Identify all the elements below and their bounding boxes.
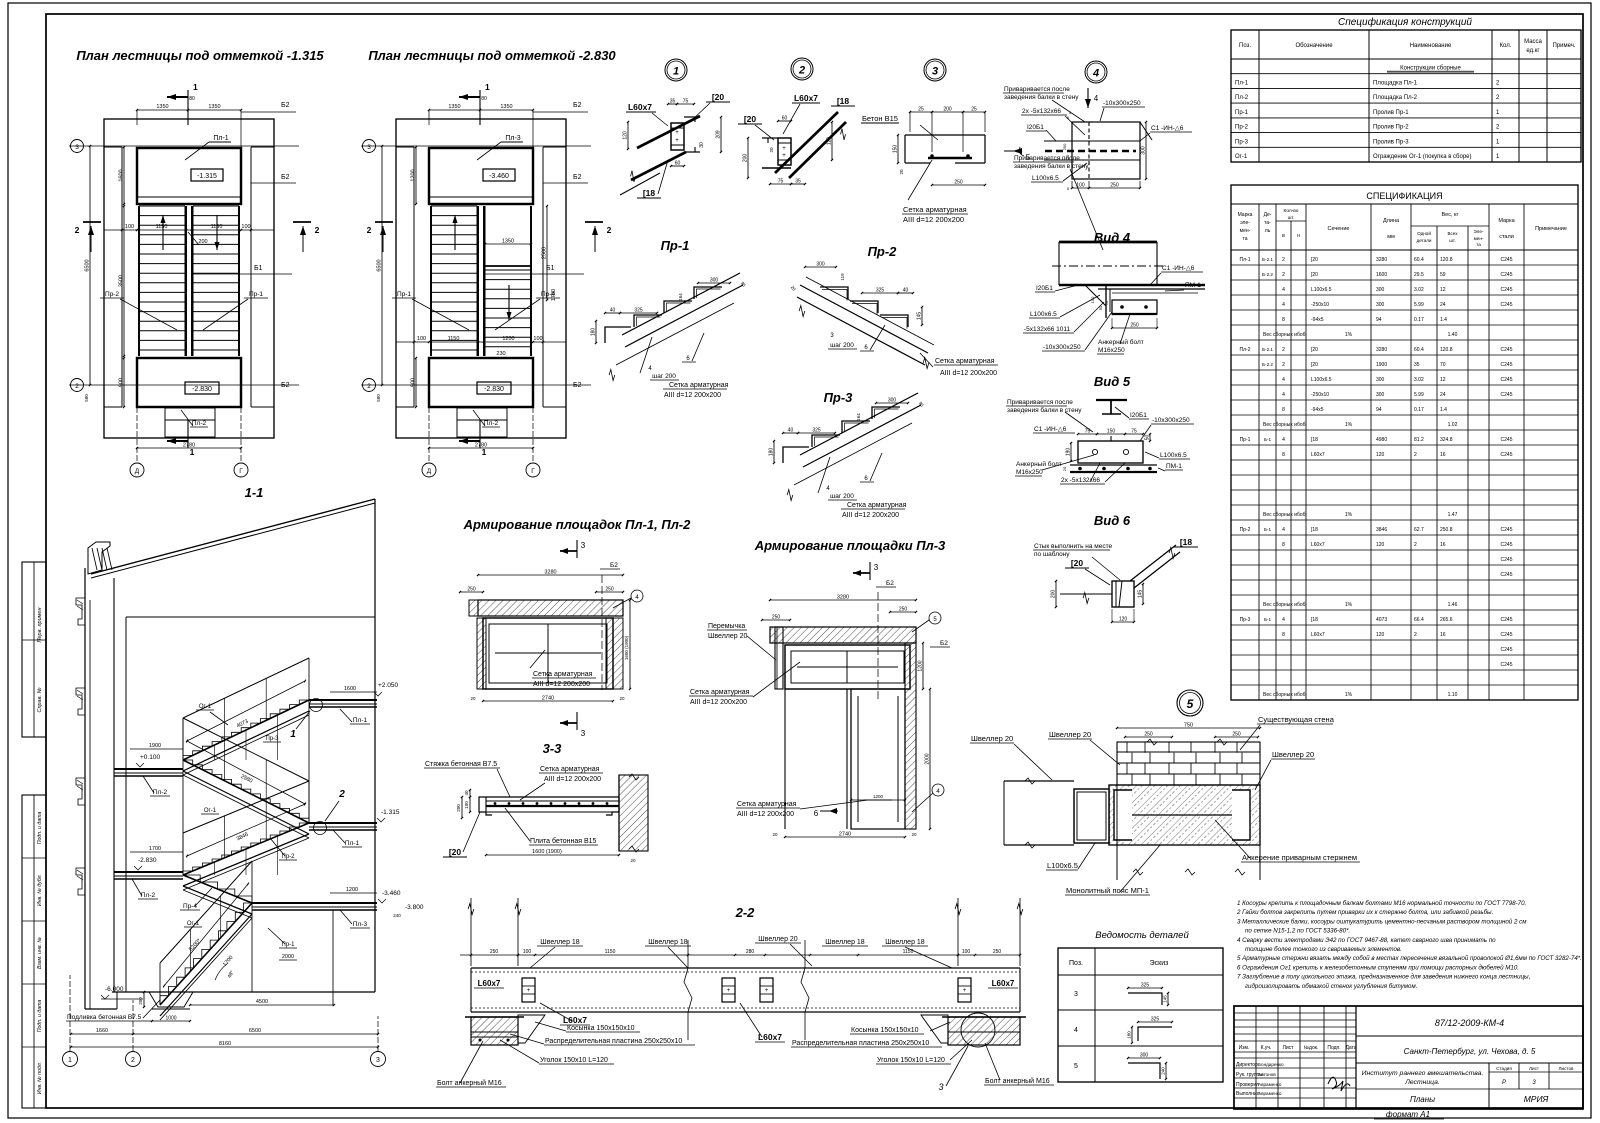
- svg-text:+: +: [963, 988, 967, 994]
- svg-text:1000: 1000: [165, 1016, 176, 1022]
- svg-text:Масса: Масса: [1524, 39, 1542, 45]
- svg-text:-2.830: -2.830: [484, 386, 504, 393]
- svg-text:20: 20: [769, 147, 774, 153]
- svg-text:-5х132х66 1011: -5х132х66 1011: [1024, 326, 1071, 333]
- svg-text:Сетка арматурная: Сетка арматурная: [690, 689, 750, 696]
- view 4 wall slab: [1059, 241, 1157, 244]
- svg-text:325: 325: [876, 288, 885, 294]
- svg-text:1200: 1200: [346, 887, 358, 893]
- svg-text:Б2: Б2: [281, 102, 290, 109]
- svg-text:0.17: 0.17: [1414, 317, 1424, 323]
- svg-text:Сетка арматурная: Сетка арматурная: [847, 502, 907, 509]
- svg-text:5.99: 5.99: [1414, 392, 1424, 398]
- svg-text:3: 3: [938, 1082, 943, 1092]
- svg-text:4: 4: [1282, 377, 1285, 383]
- svg-text:заведения балки в стену: заведения балки в стену: [1007, 406, 1082, 414]
- svg-text:Б2: Б2: [281, 382, 290, 389]
- svg-text:120: 120: [1376, 452, 1385, 458]
- stair pitch detail Пр-3 break: [787, 490, 793, 501]
- reinforcement Pl-3 dim 3280: [770, 599, 916, 601]
- plan top dims 1350 1350: [429, 109, 480, 111]
- svg-text:24: 24: [1440, 392, 1446, 398]
- svg-text:Армирование площадок Пл-1, Пл-: Армирование площадок Пл-1, Пл-2: [463, 517, 691, 532]
- plan side section marks 2: [83, 221, 101, 223]
- plan bottom elevation mark -2.830: [477, 382, 511, 394]
- left margin stamp column: [22, 562, 46, 737]
- svg-text:Пл-1: Пл-1: [1240, 257, 1251, 263]
- svg-text:Пр-2: Пр-2: [868, 244, 898, 259]
- svg-text:гидроизолировать обмазкой стен: гидроизолировать обмазкой стенок углубле…: [1245, 983, 1417, 990]
- svg-text:C245: C245: [1501, 662, 1513, 668]
- svg-text:8: 8: [1282, 632, 1285, 638]
- plan vertical dim 6500: [89, 146, 91, 385]
- svg-text:164: 164: [856, 413, 861, 421]
- svg-text:1.10: 1.10: [1448, 692, 1458, 698]
- reinforcement left wall hatch: [469, 600, 478, 616]
- svg-text:Пл-3: Пл-3: [505, 135, 520, 142]
- svg-text:Примеч.: Примеч.: [1552, 43, 1575, 49]
- svg-text:Ограждение Ог-1 (покупка в сбо: Ограждение Ог-1 (покупка в сборе): [1373, 154, 1472, 160]
- svg-text:129: 129: [827, 137, 833, 146]
- svg-text:Б2: Б2: [886, 580, 894, 587]
- title block right part: [1356, 1035, 1583, 1037]
- plan wall inner lines: [121, 147, 123, 407]
- svg-text:3: 3: [874, 563, 879, 572]
- detail 3 mesh leader text: [908, 160, 932, 200]
- reinforcement slab left wall hatch: [477, 618, 486, 689]
- svg-text:Стык выполнить на месте: Стык выполнить на месте: [1034, 543, 1113, 550]
- svg-text:Лестница.: Лестница.: [1404, 1079, 1440, 1086]
- svg-text:300: 300: [710, 278, 719, 284]
- svg-text:Б-1: Б-1: [1264, 617, 1272, 622]
- plan dim 2500: [546, 206, 548, 300]
- detail 1 dims: [668, 103, 677, 105]
- plan grid line row 3: [361, 145, 591, 147]
- svg-text:1%: 1%: [1345, 422, 1353, 428]
- svg-text:L60x7: L60x7: [628, 102, 652, 112]
- svg-text:20: 20: [619, 696, 625, 701]
- svg-text:250: 250: [954, 180, 963, 186]
- plan flight divider: [185, 206, 187, 356]
- svg-text:Эскиз: Эскиз: [1150, 960, 1169, 967]
- svg-text:Уголок 150х10 L=120: Уголок 150х10 L=120: [540, 1057, 608, 1064]
- svg-text:3-3: 3-3: [543, 741, 563, 756]
- svg-text:4: 4: [1282, 527, 1285, 533]
- svg-text:+: +: [727, 988, 731, 994]
- svg-text:3: 3: [1074, 991, 1078, 998]
- title block signature: [1328, 1077, 1350, 1091]
- detail 4 beam centerline dashed: [1045, 150, 1136, 152]
- svg-text:120: 120: [623, 131, 629, 140]
- svg-text:Г: Г: [531, 468, 535, 475]
- svg-text:40: 40: [903, 288, 909, 294]
- svg-text:Изм.: Изм.: [1239, 1045, 1250, 1051]
- svg-text:Сечение: Сечение: [1328, 226, 1350, 232]
- svg-text:Распределительная пластина 250: Распределительная пластина 250х250х10: [792, 1040, 929, 1047]
- svg-text:-2.830: -2.830: [138, 857, 157, 864]
- reinforcement dim right 1600: [629, 600, 631, 689]
- svg-text:толщине более тонкого из свари: толщине более тонкого из свариваемых эле…: [1245, 946, 1402, 953]
- svg-text:580: 580: [84, 394, 89, 402]
- svg-text:эле-: эле-: [1240, 220, 1250, 226]
- svg-text:Пр-1: Пр-1: [249, 291, 263, 298]
- svg-text:Пл-1: Пл-1: [353, 717, 368, 724]
- svg-text:мен-: мен-: [1474, 236, 1484, 241]
- reinforcement Pl-3 right wall hatch: [905, 643, 916, 829]
- section 1-1 flight Pr-1 bottom: [160, 903, 252, 1005]
- svg-text:[20: [20: [744, 114, 757, 124]
- section 1-1 landing +2.050: [309, 699, 377, 701]
- parts list table: [1058, 948, 1223, 1082]
- svg-text:1: 1: [193, 82, 198, 92]
- svg-text:[18: [18: [1311, 617, 1318, 623]
- svg-text:10: 10: [1105, 301, 1109, 305]
- svg-text:+: +: [527, 988, 531, 994]
- svg-text:Спецификация конструкций: Спецификация конструкций: [1338, 16, 1472, 28]
- svg-text:Эле-: Эле-: [1474, 229, 1484, 234]
- reinforcement dim 250 left: [460, 591, 483, 593]
- detail 2 channel 20 section: [778, 138, 791, 165]
- svg-text:+: +: [675, 130, 679, 136]
- section 1-1 landing +0.100: [114, 768, 183, 770]
- plan bottom dim 2780: [137, 447, 241, 449]
- svg-text:C245: C245: [1501, 362, 1513, 368]
- svg-text:Швеллер 20: Швеллер 20: [971, 734, 1013, 743]
- svg-text:Пр-2: Пр-2: [282, 854, 296, 860]
- svg-text:1150: 1150: [903, 949, 914, 955]
- svg-text:300: 300: [816, 262, 825, 268]
- detail 4 section arrow 5: [1004, 150, 1022, 152]
- svg-text:C245: C245: [1501, 287, 1513, 293]
- svg-text:L100х6.5: L100х6.5: [1030, 311, 1057, 318]
- plan grid bubble G: [526, 463, 540, 477]
- svg-text:Болт анкерный М16: Болт анкерный М16: [985, 1077, 1050, 1085]
- plan inner vertical dims: [415, 147, 417, 204]
- view 4 bottom flange lines: [1059, 284, 1205, 286]
- svg-text:Дата: Дата: [1345, 1045, 1356, 1051]
- svg-text:Б2: Б2: [573, 102, 582, 109]
- svg-text:Пл-3: Пл-3: [353, 921, 368, 928]
- svg-text:230: 230: [496, 351, 505, 357]
- svg-text:ль: ль: [1265, 228, 1271, 234]
- svg-text:16: 16: [1440, 542, 1446, 548]
- svg-text:4 Сварку вести электродами Э42: 4 Сварку вести электродами Э42 по ГОСТ 9…: [1237, 937, 1496, 944]
- reinforcement bottom dims: [483, 700, 613, 702]
- plan grid bubble 3: [71, 140, 84, 153]
- svg-text:Авраменко: Авраменко: [1258, 1082, 1282, 1087]
- svg-text:Пл-1: Пл-1: [345, 840, 360, 847]
- svg-text:200: 200: [198, 239, 207, 245]
- svg-text:150: 150: [1107, 429, 1116, 435]
- view 6 dims: [1055, 581, 1057, 607]
- svg-text:4: 4: [1282, 617, 1285, 623]
- svg-text:C245: C245: [1501, 437, 1513, 443]
- svg-text:L100х6.5: L100х6.5: [1311, 377, 1332, 383]
- svg-text:Приваривается после: Приваривается после: [1014, 155, 1080, 162]
- svg-text:1.02: 1.02: [1448, 422, 1458, 428]
- reinforcement Pl-3 mesh lines: [797, 666, 898, 668]
- svg-text:8: 8: [1282, 317, 1285, 323]
- svg-text:3500: 3500: [119, 275, 125, 287]
- reinforcement Pl-3 bottom dims: [785, 836, 905, 838]
- svg-text:40: 40: [788, 428, 794, 434]
- svg-text:200: 200: [1051, 590, 1057, 599]
- plan stair flights: [431, 205, 477, 207]
- svg-text:120: 120: [1376, 632, 1385, 638]
- svg-text:29.5: 29.5: [1414, 272, 1424, 278]
- svg-text:1: 1: [190, 447, 195, 457]
- svg-text:325: 325: [1151, 1017, 1160, 1023]
- svg-text:94: 94: [1376, 407, 1382, 413]
- plan section mark 1 bottom: [479, 420, 481, 448]
- plan inner vertical dims: [123, 147, 125, 204]
- svg-text:М16х250: М16х250: [1016, 469, 1043, 476]
- svg-text:2780: 2780: [475, 443, 487, 449]
- stair pitch detail Пр-2 dims (mirrored): [805, 266, 836, 268]
- reinforcement slab outline: [483, 618, 613, 689]
- svg-text:[20: [20: [1071, 558, 1084, 568]
- stair pitch detail Пр-1 mesh leader: [640, 337, 652, 373]
- svg-text:Пл-2: Пл-2: [192, 420, 207, 427]
- svg-text:L100х6.5: L100х6.5: [1047, 861, 1078, 870]
- svg-text:16: 16: [1440, 452, 1446, 458]
- detail 5 wall below break lines: [1116, 785, 1118, 880]
- stair pitch detail Пр-1 left step end: [605, 327, 631, 343]
- svg-text:-94х5: -94х5: [1311, 407, 1324, 413]
- plan up arrow: [162, 215, 164, 250]
- svg-text:Пл-2: Пл-2: [484, 420, 499, 427]
- svg-text:-3.800: -3.800: [405, 904, 424, 911]
- svg-text:Площадка Пл-2: Площадка Пл-2: [1373, 95, 1418, 101]
- svg-text:4: 4: [1282, 392, 1285, 398]
- svg-text:[18: [18: [1311, 437, 1318, 443]
- view 6 channel splice: [1112, 581, 1134, 607]
- svg-text:Б2: Б2: [573, 174, 582, 181]
- svg-text:Поз.: Поз.: [1069, 960, 1083, 967]
- svg-text:40: 40: [610, 308, 616, 314]
- svg-text:Б-1: Б-1: [1264, 437, 1272, 442]
- svg-text:300: 300: [888, 398, 897, 404]
- svg-text:2: 2: [607, 225, 612, 235]
- plan tread dims 100 1150 1200 100: [396, 341, 566, 343]
- svg-text:4: 4: [1282, 287, 1285, 293]
- svg-text:180: 180: [1127, 1031, 1132, 1039]
- svg-text:Распределительная пластина 250: Распределительная пластина 250х250х10: [545, 1038, 682, 1045]
- section 1-1 grid bubble 2: [126, 1052, 141, 1067]
- reinforcement Pl-3 circled 4: [932, 784, 944, 796]
- svg-text:2740: 2740: [839, 832, 851, 838]
- svg-text:3846: 3846: [1376, 527, 1387, 533]
- section 1-1 basement wall bottom: [85, 1008, 117, 1010]
- svg-text:Перв. примен: Перв. примен: [37, 607, 43, 642]
- detail 3 dims: [910, 111, 932, 113]
- section 3-3 bottom dim: [486, 854, 619, 856]
- svg-text:C245: C245: [1501, 257, 1513, 263]
- svg-text:+0.100: +0.100: [140, 754, 160, 761]
- svg-text:C245: C245: [1501, 452, 1513, 458]
- svg-text:1%: 1%: [1345, 332, 1353, 338]
- svg-text:2: 2: [1282, 362, 1285, 368]
- reinforcement Pl-3 top hatched beam: [770, 627, 916, 643]
- title block left grid: [1255, 1006, 1257, 1109]
- section 1-1 grid bubble 1: [63, 1052, 78, 1067]
- svg-text:2: 2: [1414, 632, 1417, 638]
- svg-text:3: 3: [581, 541, 586, 550]
- plan grid line row 2: [361, 384, 591, 386]
- svg-text:Пл-2: Пл-2: [1235, 95, 1249, 101]
- svg-text:1600: 1600: [1376, 272, 1387, 278]
- svg-text:СПЕЦИФИКАЦИЯ: СПЕЦИФИКАЦИЯ: [1366, 191, 1442, 201]
- svg-text:20: 20: [899, 169, 904, 175]
- svg-text:Косынка 150х150х10: Косынка 150х150х10: [851, 1027, 919, 1034]
- svg-text:250: 250: [772, 615, 781, 621]
- reinforcement circled 4: [631, 590, 643, 602]
- svg-text:120.8: 120.8: [1440, 347, 1453, 353]
- svg-text:Приваривается после: Приваривается после: [1007, 399, 1073, 406]
- section 2-2 end extension lines with breaks: [470, 898, 472, 966]
- svg-text:250: 250: [899, 607, 908, 613]
- svg-text:формат А1: формат А1: [1386, 1110, 1430, 1119]
- svg-text:L60x7: L60x7: [478, 979, 501, 988]
- svg-text:4500: 4500: [256, 999, 268, 1005]
- svg-text:Подливка бетонная В7.5: Подливка бетонная В7.5: [67, 1013, 142, 1021]
- plan bottom wall opening: [165, 408, 215, 437]
- svg-text:Вес сборных ибоб: Вес сборных ибоб: [1263, 692, 1306, 698]
- svg-text:2: 2: [75, 225, 80, 235]
- svg-text:2-2: 2-2: [735, 905, 756, 920]
- svg-text:6 Ограждения Ог1 крепить к жел: 6 Ограждения Ог1 крепить к железобетонны…: [1237, 964, 1519, 971]
- plan down arrow: [216, 215, 218, 250]
- svg-text:Институт раннего вмешательства: Институт раннего вмешательства.: [1362, 1070, 1484, 1077]
- title block project cell: [1488, 1063, 1490, 1109]
- section 3-3 channel ends: [479, 797, 492, 815]
- stair pitch detail Пр-3 mesh leader: [818, 457, 830, 493]
- stair pitch detail Пр-2 stringer: [800, 285, 928, 353]
- plan grid line row 3: [69, 145, 299, 147]
- title block: [1234, 1006, 1583, 1109]
- svg-text:C245: C245: [1501, 377, 1513, 383]
- svg-text:Сетка арматурная: Сетка арматурная: [737, 801, 797, 808]
- svg-text:-250х10: -250х10: [1311, 392, 1329, 398]
- svg-text:Обозначение: Обозначение: [1295, 43, 1333, 49]
- reinforcement top hatched beam: [478, 600, 623, 616]
- svg-text:Наименование: Наименование: [1410, 43, 1452, 49]
- svg-text:Б2: Б2: [610, 562, 618, 569]
- svg-text:Лист: Лист: [1283, 1045, 1295, 1051]
- svg-text:250: 250: [605, 587, 614, 593]
- svg-text:Подп.: Подп.: [1327, 1045, 1340, 1051]
- svg-text:Авраменко: Авраменко: [1258, 1091, 1282, 1096]
- svg-text:80: 80: [189, 96, 195, 102]
- svg-text:Приваривается после: Приваривается после: [1004, 86, 1070, 93]
- svg-text:Швеллер 18: Швеллер 18: [540, 939, 580, 946]
- svg-text:[20: [20: [1311, 272, 1318, 278]
- svg-text:Ведомость деталей: Ведомость деталей: [1095, 930, 1189, 941]
- svg-text:+: +: [675, 138, 679, 144]
- svg-text:C245: C245: [1501, 392, 1513, 398]
- detail 5 beam lines left: [1004, 780, 1074, 782]
- svg-text:1 Косоуры крепить к площадочны: 1 Косоуры крепить к площадочным балкам б…: [1237, 900, 1526, 907]
- svg-text:1.4: 1.4: [1440, 407, 1447, 413]
- svg-text:3: 3: [376, 1057, 380, 1064]
- view 5 base band: [1070, 464, 1157, 466]
- svg-text:стали: стали: [1499, 234, 1514, 240]
- svg-text:по сетке N15-1,2 по ГОСТ 5336-: по сетке N15-1,2 по ГОСТ 5336-80*.: [1245, 928, 1350, 935]
- svg-text:2: 2: [338, 789, 345, 800]
- svg-text:3: 3: [932, 66, 938, 78]
- svg-text:C245: C245: [1501, 617, 1513, 623]
- detail 5 channel in belt left: [1114, 790, 1132, 840]
- svg-text:35: 35: [1414, 362, 1420, 368]
- detail 5 monolithic belt hatched: [1109, 785, 1260, 845]
- svg-text:Выполнил: Выполнил: [1236, 1091, 1260, 1097]
- svg-text:119: 119: [840, 273, 845, 281]
- view 5 I-beam section: [1096, 399, 1127, 401]
- svg-text:1150: 1150: [605, 949, 616, 955]
- svg-text:60: 60: [782, 116, 788, 122]
- reinforcement Pl-3 dim 250 left: [762, 619, 790, 621]
- svg-text:Б2: Б2: [573, 382, 582, 389]
- svg-text:3 Металлические балки, косоуры: 3 Металлические балки, косоуры оштукатур…: [1237, 918, 1527, 925]
- svg-text:4: 4: [1282, 437, 1285, 443]
- svg-text:Б-1: Б-1: [1264, 527, 1272, 532]
- svg-text:0.17: 0.17: [1414, 407, 1424, 413]
- svg-text:8: 8: [1282, 542, 1285, 548]
- svg-text:С1 -ИН-△6: С1 -ИН-△6: [1151, 125, 1184, 132]
- view 4 anchor plate with bolts: [1112, 300, 1157, 314]
- svg-text:100: 100: [533, 336, 542, 342]
- section 1-1 slope angle 48: [215, 963, 228, 980]
- svg-text:С1 -ИН-△6: С1 -ИН-△6: [1162, 265, 1195, 272]
- svg-text:1600 (1900): 1600 (1900): [532, 849, 562, 855]
- svg-text:5.99: 5.99: [1414, 302, 1424, 308]
- svg-text:1660: 1660: [96, 1028, 108, 1034]
- svg-text:-10х300х250: -10х300х250: [1043, 344, 1081, 351]
- svg-text:Пр-3: Пр-3: [1240, 617, 1251, 623]
- svg-text:6500: 6500: [377, 259, 383, 271]
- svg-text:2: 2: [367, 383, 371, 390]
- svg-text:300: 300: [1141, 146, 1147, 155]
- svg-text:Р: Р: [1502, 1080, 1506, 1086]
- section 3-3 dims left: [469, 790, 471, 797]
- svg-text:75: 75: [778, 179, 784, 185]
- svg-text:40: 40: [464, 790, 469, 796]
- svg-text:C245: C245: [1501, 632, 1513, 638]
- svg-text:Сетка арматурная: Сетка арматурная: [540, 766, 600, 773]
- detail 5 channel in belt right: [1232, 790, 1250, 840]
- section 1-1 pit dims: [143, 992, 145, 1007]
- svg-text:+2.050: +2.050: [378, 682, 398, 689]
- plan section mark 1 top: [479, 90, 481, 125]
- svg-text:1600: 1600: [344, 686, 356, 692]
- stair pitch detail Пр-1 dims: [605, 312, 620, 314]
- svg-text:1900: 1900: [1376, 362, 1387, 368]
- svg-text:250: 250: [1110, 183, 1119, 189]
- svg-text:Вес сборных ибоб: Вес сборных ибоб: [1263, 332, 1306, 338]
- svg-text:М16х250: М16х250: [1098, 347, 1125, 354]
- section 1-1 flight Pr-2 upper: [183, 760, 309, 823]
- svg-text:L100х6.5: L100х6.5: [1311, 287, 1332, 293]
- svg-text:2: 2: [1282, 257, 1285, 263]
- svg-text:Болт анкерный М16: Болт анкерный М16: [437, 1079, 502, 1087]
- svg-text:+: +: [765, 988, 769, 994]
- svg-text:К.уч.: К.уч.: [1261, 1045, 1272, 1051]
- svg-text:шт.: шт.: [1449, 238, 1456, 243]
- svg-text:мен-: мен-: [1240, 228, 1251, 234]
- svg-text:200: 200: [943, 107, 952, 113]
- svg-text:Вес сборных ибоб: Вес сборных ибоб: [1263, 602, 1306, 608]
- svg-text:4980: 4980: [1376, 437, 1387, 443]
